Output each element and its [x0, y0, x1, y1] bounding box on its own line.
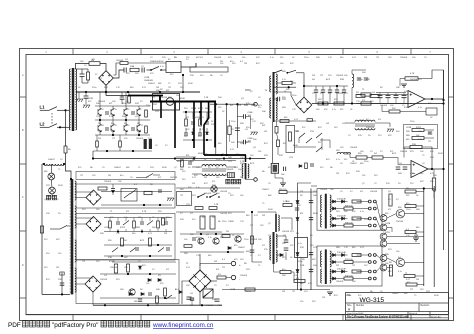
svg-text:D16 4148: D16 4148 [337, 269, 347, 271]
res R54 [184, 245, 192, 248]
wire fans [50, 164, 52, 173]
wire T3 leads [192, 166, 202, 168]
feedback res R82 [410, 145, 422, 148]
resistor R fan [64, 146, 67, 153]
svg-text:4.7u: 4.7u [418, 107, 422, 109]
reg box U3 [295, 238, 308, 258]
res chain R203 [275, 127, 278, 134]
wire x93 drop [92, 151, 94, 159]
mid part col 0 [185, 119, 188, 126]
wire ctl top y121 [273, 120, 317, 122]
wire bus entry [105, 92, 107, 96]
wire L2 to T1 [60, 126, 69, 128]
resistor C10B column [228, 126, 231, 135]
T1 right winding [75, 69, 76, 130]
cap C80 [396, 167, 401, 169]
block2 part 1 [116, 222, 120, 224]
svg-text:R1A: R1A [130, 65, 135, 68]
bottom row cap C62 [190, 298, 194, 300]
svg-text:1N4148: 1N4148 [336, 93, 344, 95]
right rail x434 [433, 186, 435, 287]
title block divider size/number [353, 303, 355, 312]
vert drop x237 [236, 104, 238, 148]
heatsink device box [153, 94, 180, 111]
svg-text:1N4148: 1N4148 [410, 79, 418, 81]
res R64 [356, 95, 365, 98]
block2 part 2 [123, 221, 129, 226]
cap C72 [428, 132, 432, 134]
AC top wire [76, 91, 200, 93]
dark box TL431 [271, 163, 278, 173]
driver row 3 branch1 diode2 [342, 254, 345, 257]
electrolytic dark cap1 [144, 139, 147, 149]
bridge rectifier BR3 [86, 217, 101, 232]
resistor R42 [164, 288, 167, 296]
svg-text:1N5408: 1N5408 [336, 281, 344, 283]
wire BR3 leads [76, 217, 94, 219]
wire R83 [433, 169, 435, 178]
inductor L60 [352, 74, 354, 88]
wire ctl box down [274, 173, 276, 178]
svg-text:1N5408: 1N5408 [104, 181, 112, 183]
svg-text:1W: 1W [326, 123, 329, 125]
resistor R62 [318, 102, 328, 105]
switch box b1 [121, 189, 137, 202]
aux transformer T8 core [273, 232, 275, 264]
svg-text:1N5408: 1N5408 [98, 101, 106, 103]
block2 part 6 [157, 221, 160, 228]
svg-text:2W: 2W [416, 279, 419, 281]
chassis ground input [76, 99, 83, 102]
svg-text:2W: 2W [262, 215, 265, 217]
driver row 4 branch2 diode [333, 277, 336, 280]
res R65 [370, 95, 379, 98]
wire bridge left [182, 281, 189, 304]
switch thermal cutout [60, 225, 67, 229]
op-amp U1 [408, 91, 425, 108]
thick riser e [214, 102, 216, 148]
top box row [190, 67, 228, 72]
electrolytic dark cap2 [149, 139, 152, 149]
wire aux top row [113, 63, 120, 75]
svg-text:K792: K792 [416, 127, 422, 129]
wire top control [176, 156, 196, 158]
wire U2 out [428, 168, 444, 170]
svg-text:4.7u: 4.7u [282, 79, 286, 81]
junction qrow [200, 233, 202, 235]
svg-text:4.7u: 4.7u [270, 57, 274, 59]
wire ctl right [295, 146, 316, 148]
svg-text:220u: 220u [244, 239, 248, 241]
bridge rectifier BR2 [86, 190, 101, 205]
wire y158 junctions [92, 157, 94, 159]
svg-text:1W: 1W [56, 267, 59, 269]
aux junctions [322, 102, 324, 104]
block2 part 3 [133, 221, 136, 228]
resistor R07B [87, 72, 90, 80]
capacitor C42 [148, 293, 152, 295]
cap C3 under bus [120, 97, 125, 99]
svg-text:C07B: C07B [191, 108, 197, 110]
rail cap C82 [309, 253, 313, 255]
svg-text:22R: 22R [46, 185, 50, 187]
bottom row part D63 [179, 291, 182, 294]
svg-text:1W: 1W [322, 297, 325, 299]
svg-text:C: C [22, 196, 24, 199]
aux cap C64 [328, 90, 332, 92]
small transformer T5 [355, 120, 375, 122]
svg-text:1N5408: 1N5408 [240, 275, 248, 277]
bottom row lever2 [203, 293, 209, 298]
mid part col lower 3 [206, 132, 209, 135]
block2 part 4 [140, 222, 144, 224]
output device Q27 [396, 258, 404, 266]
driver row 1 branch1 terminals [368, 200, 371, 203]
svg-text:2.2K: 2.2K [109, 116, 114, 118]
driver transformer T7 core [325, 249, 327, 284]
driver connect wires [387, 214, 396, 218]
driver row 1 branch2 terminals [368, 207, 371, 210]
transistor Q5 [129, 289, 135, 295]
wire fan rail right [64, 164, 71, 179]
svg-text:2W: 2W [214, 261, 217, 263]
dot x252 [251, 211, 253, 213]
svg-text:220u: 220u [92, 87, 96, 89]
svg-text:10K: 10K [396, 87, 400, 89]
T2 winding sec2 [75, 206, 76, 228]
switch SW1 [147, 69, 152, 71]
svg-text:1N5408: 1N5408 [400, 57, 408, 59]
wire block1 rails [101, 191, 172, 193]
driver base wires [376, 202, 380, 219]
svg-text:1N4148: 1N4148 [170, 177, 178, 179]
svg-text:Size: Size [347, 305, 352, 307]
electrolytic CE4 [210, 216, 215, 229]
aux rails [312, 85, 348, 87]
junction coil [43, 163, 45, 165]
thick drop x245 [245, 155, 247, 162]
svg-text:C07B: C07B [230, 289, 236, 291]
vert x252 column [251, 212, 253, 262]
svg-text:4.7K: 4.7K [190, 299, 195, 301]
wire caps rail top [376, 92, 406, 94]
diode D42 [148, 279, 151, 282]
wire feedback top [400, 79, 405, 87]
device circle [166, 98, 174, 106]
T2 winding sec4 [75, 268, 76, 292]
svg-text:1N4148: 1N4148 [396, 221, 404, 223]
res R97 [294, 280, 305, 283]
part rect b1 [144, 191, 152, 194]
driver box rows12 [317, 189, 382, 231]
svg-text:4.7u: 4.7u [200, 129, 204, 131]
title block row line 4 [346, 317, 449, 319]
wire coil left rail [42, 163, 44, 165]
frame zone ticks left [20, 97, 27, 298]
output device Q26 [396, 210, 404, 218]
driver row 3 wires [331, 254, 333, 256]
res R3 under bus [128, 96, 131, 103]
svg-text:1N5408: 1N5408 [204, 193, 212, 195]
svg-text:1N4148: 1N4148 [400, 151, 408, 153]
svg-text:C07B: C07B [88, 98, 94, 100]
transistor K2B [111, 124, 114, 132]
wire dr1 [416, 191, 424, 193]
rail diode D81 [296, 218, 299, 221]
svg-text:103 104: 103 104 [366, 127, 375, 129]
rail cap C81 [309, 218, 313, 220]
svg-text:C07B: C07B [406, 127, 412, 129]
upper thin box [76, 172, 175, 180]
svg-text:Sheet of: Sheet of [409, 312, 418, 315]
svg-text:4.7u: 4.7u [124, 217, 128, 219]
capacitor C1 input [124, 68, 126, 73]
driver row 2 branch1 diode [333, 217, 336, 220]
line filter transformer T1 core [72, 68, 75, 131]
svg-text:2W: 2W [204, 177, 207, 179]
T7 windings [320, 251, 321, 267]
svg-text:330K: 330K [240, 163, 245, 165]
feedback res R72 [405, 77, 418, 80]
vert x250 short [250, 117, 252, 130]
svg-text:10K: 10K [156, 90, 160, 92]
res R80 [356, 156, 367, 159]
block2 part 0 [109, 221, 112, 228]
svg-text:L2: L2 [40, 122, 46, 127]
thick riser a [160, 102, 162, 119]
svg-text:R29 100: R29 100 [345, 206, 353, 208]
driver row 4 branch1 terminals [368, 270, 371, 273]
svg-text:1N5408: 1N5408 [250, 239, 258, 241]
svg-text:Revision: Revision [421, 305, 431, 307]
svg-text:www.fineprint.com.cn: www.fineprint.com.cn [152, 322, 214, 329]
relay label 继电器 [226, 179, 230, 184]
cap column [235, 128, 240, 130]
res R06 [412, 129, 424, 132]
svg-text:22R: 22R [430, 157, 434, 159]
capacitor C32 [158, 190, 162, 192]
driver row 3 branch1 terminals [368, 254, 371, 257]
driver row 2 branch2 diode [333, 224, 336, 227]
mid part col 2 [199, 119, 202, 126]
wire main horiz y160 [176, 160, 236, 162]
aux transformer T4 core [273, 72, 275, 122]
transistor Q8 [235, 236, 241, 242]
bridge rectifier BR1 [99, 71, 114, 86]
wire BR2 in [76, 191, 94, 193]
svg-text:10K: 10K [262, 111, 266, 113]
horiz y90 link [245, 89, 251, 91]
svg-text:C07B: C07B [385, 223, 391, 225]
switch SW2 [124, 194, 130, 199]
svg-text:1N4007: 1N4007 [262, 189, 270, 191]
feedback box U1 [426, 108, 437, 115]
wire bridge to bus [105, 85, 107, 92]
svg-text:1N4148: 1N4148 [220, 191, 228, 193]
cap C55 [215, 299, 220, 301]
driver ground [413, 238, 419, 241]
title block row line 3 [26, 314, 449, 316]
frame zone ticks top [73, 49, 411, 55]
wire fuse to bridge [100, 64, 106, 72]
svg-text:22R: 22R [246, 269, 250, 271]
DC bus thick main [150, 101, 216, 103]
cap ctl C104 [284, 167, 286, 171]
output block2 outline [76, 214, 175, 261]
wire inputs U1 [371, 94, 408, 96]
bottom row diode D62 [141, 293, 144, 296]
driver row 1 branch2 resistor [344, 207, 353, 210]
svg-text:4.7u: 4.7u [398, 271, 402, 273]
block2 res Rv3 [162, 218, 165, 225]
aux cap C65 [335, 90, 339, 92]
thick bottom bus [204, 154, 246, 156]
bottom row drops [128, 294, 130, 305]
switch S1a [40, 109, 49, 111]
fan label 风扇 [47, 195, 51, 200]
resistor R31 [98, 187, 107, 190]
y104 junctions [215, 103, 217, 105]
driver top entry [298, 183, 312, 189]
driver row 2 wires [331, 218, 333, 220]
svg-text:4.7u: 4.7u [160, 66, 164, 68]
mid part col 1 [191, 122, 195, 124]
svg-text:2W: 2W [433, 191, 436, 193]
wire CE rails [196, 231, 222, 233]
zener D41 [139, 266, 142, 269]
cluster rail top [95, 105, 150, 107]
svg-text:4.7u: 4.7u [196, 187, 200, 189]
driver row 3 branch2 diode [333, 261, 336, 264]
svg-text:2W: 2W [240, 143, 243, 145]
wire input top rail [75, 68, 88, 70]
block2 rails [104, 217, 172, 219]
svg-text:WG-315: WG-315 [360, 297, 385, 304]
wire caps right [237, 116, 243, 118]
cap C90 [284, 240, 289, 242]
driver row 1 branch2 diode [333, 207, 336, 210]
svg-text:R31 100: R31 100 [345, 259, 353, 261]
driver left rail x311 [310, 189, 312, 291]
switch lever T4 a [274, 70, 282, 73]
drawing frame inner border [26, 55, 449, 315]
transistor column Q25 [380, 264, 387, 271]
bottom rail dots [104, 304, 106, 306]
cap C112 [295, 208, 299, 210]
op-amp U2 [411, 161, 428, 178]
main transformer T2 core [71, 179, 74, 294]
wire misc1 [258, 211, 277, 213]
driver right resistors [405, 190, 416, 193]
switch lever ctl b [306, 138, 312, 143]
svg-text:330K: 330K [434, 295, 439, 297]
svg-text:4.7u: 4.7u [298, 243, 302, 245]
aux T4 right winding [276, 74, 277, 94]
switch lever ctl d [316, 147, 322, 152]
cap C68 [378, 96, 383, 98]
svg-text:220u: 220u [364, 161, 368, 163]
transistor K3A [124, 108, 127, 116]
cluster rail bottom [93, 150, 152, 152]
upper box lever [146, 174, 153, 178]
res ctl R202 [307, 119, 313, 122]
thick riser d [200, 102, 202, 126]
fan motor M2 [49, 187, 56, 194]
cluster junctions [99, 119, 101, 121]
svg-text:2W: 2W [364, 57, 367, 59]
right rail x443 [443, 70, 445, 250]
junction L2 [59, 126, 61, 128]
thick riser c [193, 102, 195, 149]
resistor R41 [127, 264, 130, 272]
driver row 1 branch1 diode2 [342, 200, 345, 203]
svg-text:10K: 10K [96, 103, 100, 105]
svg-text:4.7K: 4.7K [410, 73, 415, 75]
driver row 1 branch1 resistor [352, 200, 361, 203]
mid part col lower 2 [198, 133, 202, 135]
small transformer T9 [275, 214, 277, 232]
svg-text:1N5408: 1N5408 [380, 105, 388, 107]
svg-text:4.7u: 4.7u [360, 211, 364, 213]
svg-text:220u: 220u [358, 79, 362, 81]
svg-text:C07B: C07B [104, 227, 110, 229]
T2 winding sec1 [75, 181, 76, 200]
resistor R60 [282, 81, 292, 84]
switch link dashes [51, 113, 53, 124]
mid transistor links [383, 239, 385, 241]
svg-text:220u: 220u [222, 221, 226, 223]
svg-text:220u: 220u [231, 121, 235, 123]
cap C81 [403, 167, 408, 169]
res chain R204 [277, 140, 280, 147]
svg-text:1N5408: 1N5408 [336, 75, 344, 77]
aux cap C66 [342, 90, 346, 92]
svg-text:2W: 2W [98, 138, 101, 140]
mid part col 3 [205, 122, 209, 124]
svg-text:1N5408: 1N5408 [350, 147, 358, 149]
wire fb2 [422, 147, 432, 169]
aux cap C62 [314, 90, 318, 92]
wire bridge to terminals [211, 280, 217, 282]
svg-text:D14 4148: D14 4148 [337, 216, 347, 218]
frame zone ticks bottom [73, 315, 411, 321]
svg-text:220u: 220u [406, 209, 410, 211]
svg-text:C10B: C10B [248, 112, 254, 114]
svg-text:Drawn By:: Drawn By: [431, 316, 441, 319]
resistor R51 [209, 207, 217, 210]
block2 part 7 [164, 222, 168, 224]
varistor crossed box [203, 289, 213, 298]
cluster resistors [145, 110, 148, 117]
svg-text:1W: 1W [336, 173, 339, 175]
svg-text:4.7K: 4.7K [414, 235, 419, 237]
transistor K2A [111, 108, 114, 116]
res R112 [283, 204, 292, 207]
cap drop wire [387, 93, 389, 96]
transistor K3B [124, 124, 127, 132]
terminal mid [254, 102, 258, 106]
thick riser b [174, 102, 176, 149]
svg-text:1N4148: 1N4148 [206, 305, 214, 307]
junction block3 [127, 273, 129, 275]
wire driver feed y192 [287, 191, 317, 193]
res R52 [181, 160, 184, 167]
wire lower [424, 129, 434, 131]
output block1 outline [76, 184, 175, 208]
thick riser f [204, 102, 209, 156]
switch S1b [40, 126, 49, 128]
svg-text:2W: 2W [156, 87, 159, 89]
